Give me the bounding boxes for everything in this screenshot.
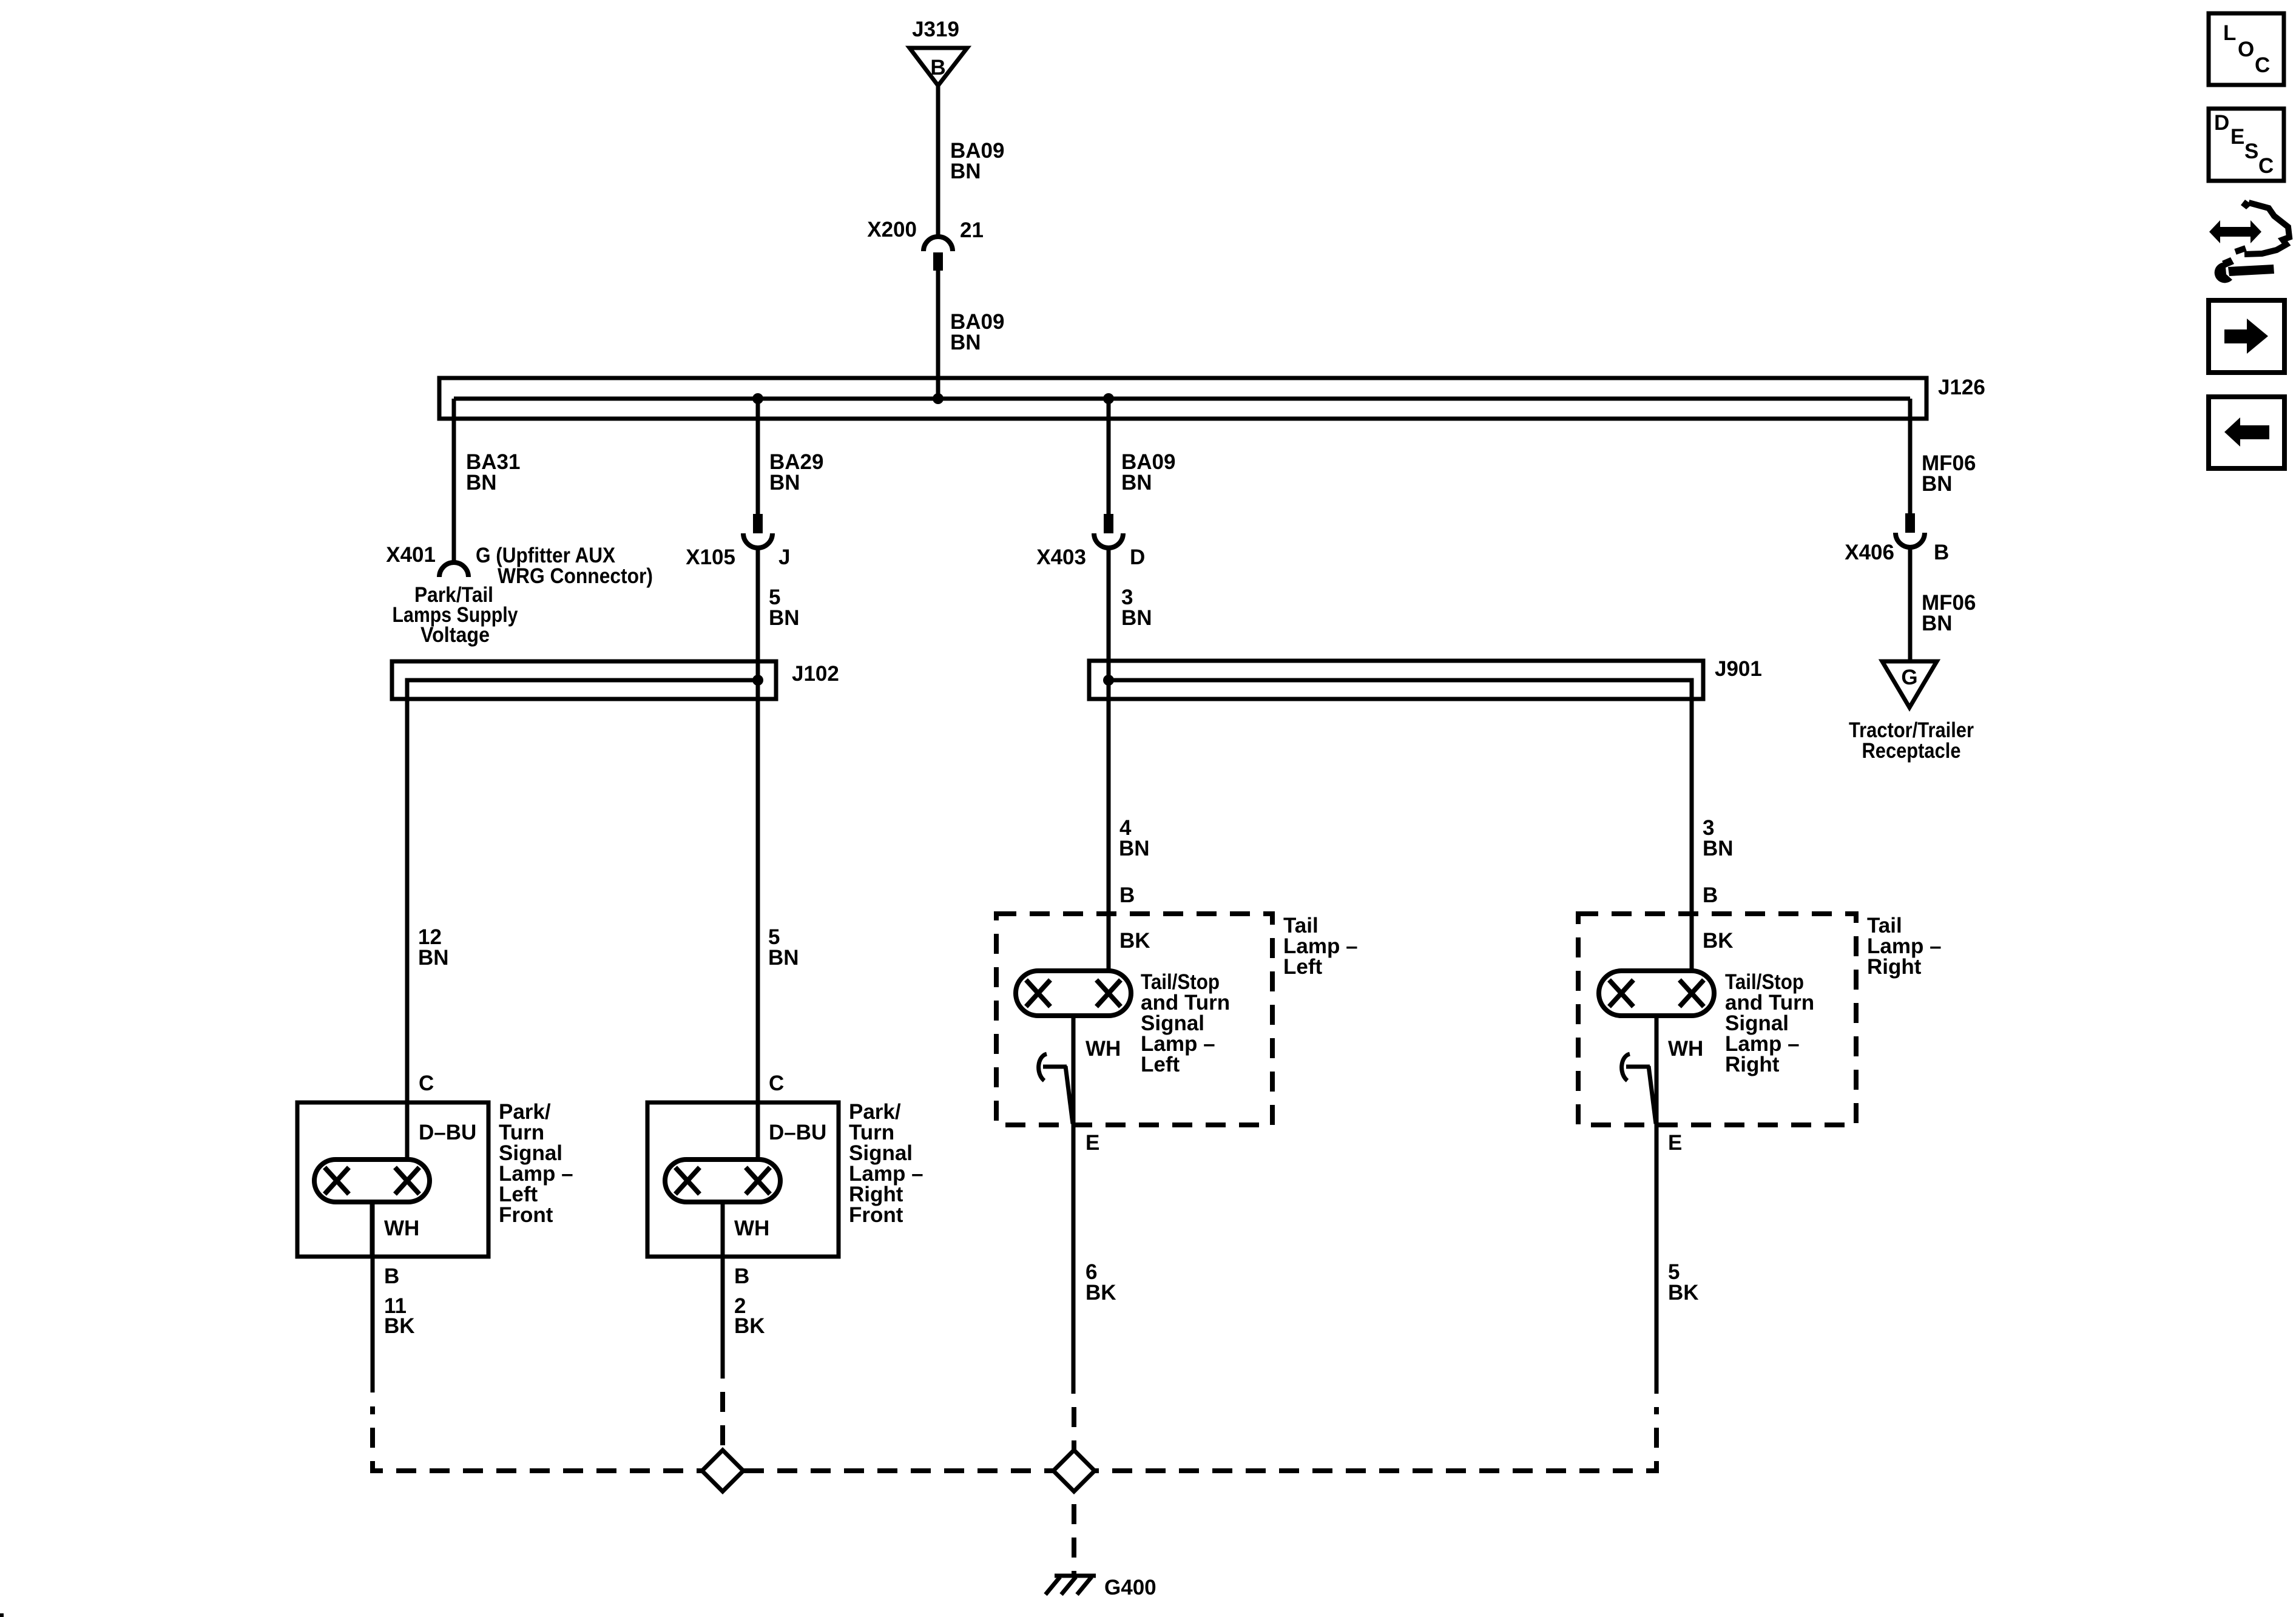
svg-text:Right: Right	[1725, 1053, 1780, 1076]
svg-text:E: E	[1668, 1131, 1682, 1155]
svg-text:BN: BN	[1922, 472, 1953, 496]
svg-text:D–BU: D–BU	[769, 1121, 826, 1144]
svg-text:J: J	[778, 545, 790, 569]
svg-text:G400: G400	[1104, 1576, 1156, 1599]
svg-text:BN: BN	[1703, 837, 1734, 860]
svg-text:WH: WH	[1668, 1037, 1703, 1061]
svg-text:BK: BK	[1119, 929, 1150, 953]
svg-text:E: E	[2230, 125, 2244, 149]
svg-text:BK: BK	[384, 1314, 415, 1338]
svg-text:D: D	[2214, 111, 2229, 135]
svg-text:J319: J319	[912, 18, 959, 41]
svg-text:WRG Connector): WRG Connector)	[498, 564, 653, 588]
svg-text:BN: BN	[1121, 606, 1152, 630]
svg-text:WH: WH	[734, 1217, 769, 1240]
svg-text:BN: BN	[1121, 471, 1152, 495]
svg-text:Receptacle: Receptacle	[1862, 739, 1961, 763]
svg-text:Front: Front	[499, 1203, 553, 1227]
svg-text:X200: X200	[867, 218, 917, 241]
svg-text:C: C	[769, 1072, 784, 1095]
svg-text:L: L	[2223, 21, 2236, 45]
svg-text:X401: X401	[386, 543, 436, 567]
svg-text:21: 21	[960, 218, 984, 242]
svg-text:Front: Front	[849, 1203, 903, 1227]
svg-text:X403: X403	[1036, 545, 1086, 569]
svg-text:Left: Left	[1141, 1053, 1180, 1076]
svg-text:BN: BN	[950, 331, 981, 354]
svg-text:G: G	[1901, 666, 1917, 689]
svg-text:BN: BN	[768, 946, 799, 970]
svg-text:B: B	[1703, 883, 1718, 907]
svg-text:BN: BN	[1922, 612, 1953, 635]
svg-text:BN: BN	[466, 471, 497, 495]
svg-text:X105: X105	[686, 545, 735, 569]
svg-text:O: O	[2238, 38, 2254, 61]
svg-text:BK: BK	[734, 1314, 765, 1338]
svg-text:C: C	[2255, 53, 2270, 77]
svg-text:WH: WH	[1086, 1037, 1121, 1061]
svg-text:BN: BN	[1119, 837, 1150, 860]
svg-text:BK: BK	[1668, 1281, 1699, 1305]
svg-text:Voltage: Voltage	[420, 623, 490, 647]
svg-text:C: C	[2258, 154, 2274, 178]
svg-text:B: B	[1119, 883, 1135, 907]
svg-text:E: E	[1086, 1131, 1099, 1155]
svg-text:Left: Left	[1283, 955, 1323, 979]
svg-text:J126: J126	[1938, 376, 1985, 399]
svg-text:WH: WH	[384, 1217, 419, 1240]
svg-text:BN: BN	[769, 606, 800, 630]
svg-text:BN: BN	[418, 946, 449, 970]
svg-text:Right: Right	[1867, 955, 1922, 979]
svg-text:D–BU: D–BU	[419, 1121, 476, 1144]
svg-text:S: S	[2244, 140, 2258, 163]
svg-text:BN: BN	[950, 160, 981, 183]
svg-text:D: D	[1130, 545, 1145, 569]
svg-text:B: B	[930, 56, 945, 79]
svg-text:J102: J102	[792, 662, 839, 686]
svg-text:J901: J901	[1715, 657, 1762, 681]
svg-text:BK: BK	[1086, 1281, 1116, 1305]
svg-text:B: B	[734, 1264, 749, 1288]
svg-text:B: B	[1934, 541, 1949, 564]
svg-text:C: C	[419, 1072, 434, 1095]
svg-text:B: B	[384, 1264, 399, 1288]
svg-text:BN: BN	[769, 471, 800, 495]
svg-text:BK: BK	[1703, 929, 1734, 953]
svg-text:X406: X406	[1845, 541, 1894, 564]
